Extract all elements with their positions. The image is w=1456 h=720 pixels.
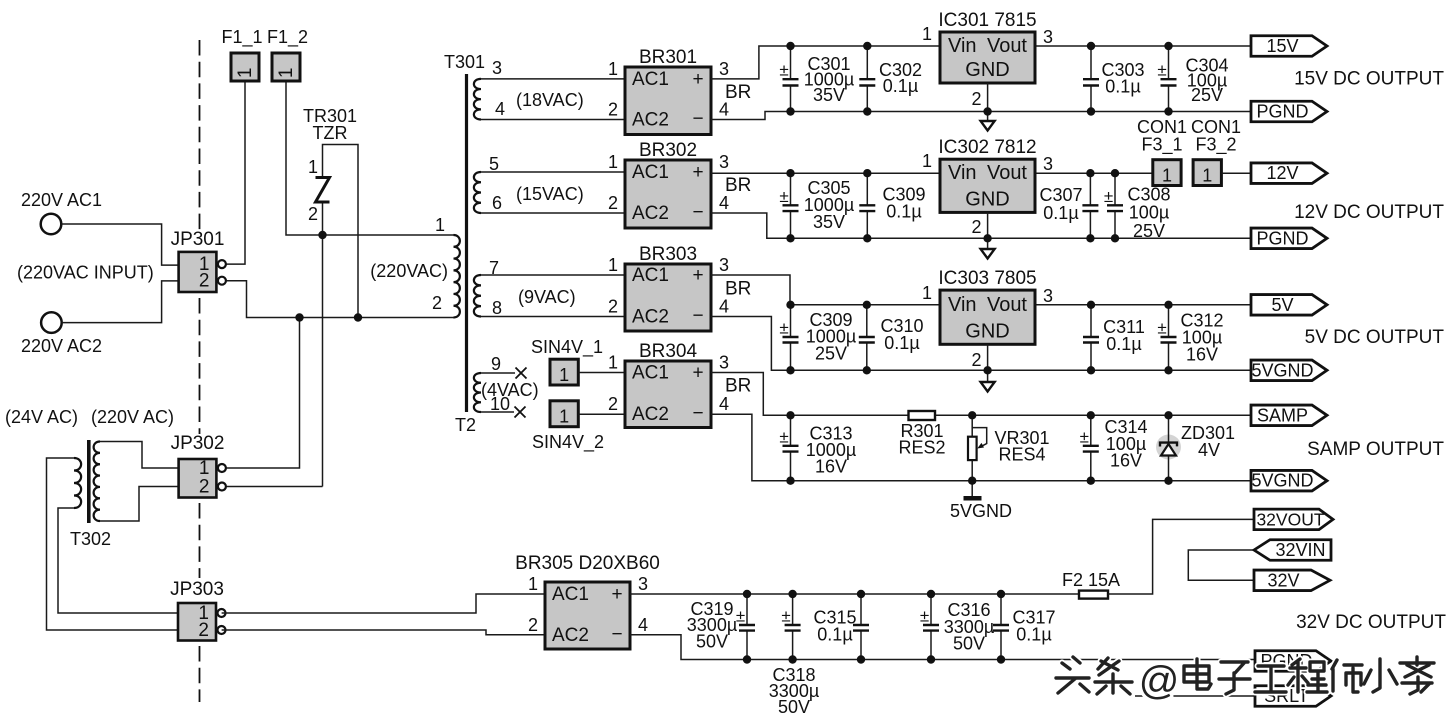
svg-text:BR303: BR303 [639, 244, 697, 265]
junction 15V rail x=867.3 [863, 42, 871, 50]
fuse SIN4V_2 [532, 401, 604, 453]
junction 5VGND rail x=1168.5 [1164, 366, 1172, 374]
wire TR301 pin2 down to JP302 pin2 [322, 203, 324, 487]
connector JP303 [170, 579, 225, 641]
svg-text:1: 1 [922, 283, 932, 303]
svg-text:6: 6 [492, 193, 502, 213]
svg-text:2: 2 [971, 89, 981, 109]
svg-text:±: ± [1157, 61, 1166, 80]
svg-text:T302: T302 [70, 529, 111, 549]
svg-text:2: 2 [199, 477, 210, 498]
svg-text:AC1: AC1 [632, 363, 669, 384]
capacitor C315 [853, 594, 869, 660]
junction 32V rail x=1001 [997, 590, 1005, 598]
net flag PGND row1 [1251, 101, 1327, 122]
capacitor C311 [1083, 305, 1099, 371]
capacitor C304 [1157, 46, 1176, 112]
fuse F2 [1079, 591, 1108, 599]
wire BR301 pin3 to 15V rail [711, 46, 1251, 79]
svg-text:3: 3 [719, 152, 729, 172]
svg-text:Vin: Vin [948, 35, 977, 57]
svg-text:0.1µ: 0.1µ [1106, 334, 1141, 354]
wire T301 pin10 stub [481, 411, 514, 413]
junction 12V rail x=1115 [1111, 169, 1119, 177]
svg-text:2: 2 [308, 204, 318, 224]
bridge rectifier BR305 [515, 553, 660, 649]
bridge rectifier BR301 [608, 47, 751, 135]
svg-text:−: − [692, 306, 703, 327]
svg-text:±: ± [1104, 187, 1113, 206]
junction 5VGND rail x=866.8 [863, 366, 871, 374]
net flag 5VGND row4 [1251, 470, 1327, 491]
svg-text:4V: 4V [1198, 440, 1220, 460]
junction PGND rail x=867.3 [863, 107, 871, 115]
junction PGND row5 rail x=931 [927, 655, 935, 663]
junction PGND row2 rail x=1115 [1111, 234, 1119, 242]
junction AC2 node at JP302 branch [295, 313, 303, 321]
wire T301 pin8 to BR303 AC2 [481, 316, 625, 318]
C317 value label [1012, 608, 1055, 645]
junction 32V rail x=931 [927, 590, 935, 598]
fuse F1_2 [267, 27, 308, 81]
svg-text:3: 3 [719, 255, 729, 275]
svg-text:3: 3 [1043, 286, 1053, 306]
bridge rectifier BR304 [608, 341, 751, 428]
bridge rectifier BR303 [608, 244, 751, 331]
svg-text:1: 1 [528, 574, 538, 594]
net flag PGND row2 [1251, 228, 1327, 249]
junction IC303 GND at 5VGND rail [983, 366, 991, 374]
junction 5VGND row4 rail x=972.2 [968, 477, 976, 485]
svg-text:2: 2 [608, 394, 618, 414]
wire BR304 pin3 to SAMP rail [711, 373, 1251, 416]
svg-text:SAMP: SAMP [1257, 405, 1308, 425]
svg-text:GND: GND [965, 320, 1009, 342]
svg-text:+: + [692, 265, 703, 286]
capacitor C318 [781, 594, 800, 660]
svg-text:AC2: AC2 [632, 203, 669, 224]
svg-text:5V DC OUTPUT: 5V DC OUTPUT [1305, 327, 1445, 348]
resistor R301 [909, 411, 936, 420]
svg-text:0.1µ: 0.1µ [884, 333, 919, 353]
junction PGND rail x=790.5 [786, 107, 794, 115]
voltage regulator IC302 7812 [922, 137, 1053, 212]
surge absorber TR301 (TZR) [316, 178, 330, 203]
transformer T301 core [465, 74, 468, 412]
svg-text:F3_1: F3_1 [1141, 135, 1182, 156]
C318 value label [769, 665, 819, 717]
capacitor C305 [779, 173, 798, 238]
C309 row2 value label [882, 185, 925, 222]
svg-text:32VIN: 32VIN [1275, 540, 1325, 560]
ground symbol 5VGND (bar) [964, 481, 982, 499]
C312 value label [1180, 311, 1223, 365]
net flag 32V [1254, 570, 1330, 591]
svg-text:4: 4 [719, 394, 729, 414]
svg-text:7: 7 [489, 258, 499, 278]
svg-text:5: 5 [489, 154, 499, 174]
svg-text:25V: 25V [1133, 221, 1165, 241]
svg-text:100µ: 100µ [1129, 203, 1169, 223]
wire JP303 pin2 to BR305 AC2 [222, 630, 545, 635]
svg-text:32V: 32V [1267, 570, 1299, 590]
svg-text:0.1µ: 0.1µ [886, 202, 921, 222]
svg-text:AC2: AC2 [632, 404, 669, 425]
svg-text:0.1µ: 0.1µ [1016, 625, 1051, 645]
T301 secondary winding 18VAC [474, 79, 481, 120]
svg-text:−: − [611, 624, 622, 645]
junction 5V rail x=866.8 [863, 301, 871, 309]
svg-text:(18VAC): (18VAC) [516, 90, 584, 110]
T301 secondary winding 9VAC [474, 275, 481, 317]
potentiometer VR301 [968, 415, 987, 480]
wire T301 pin9 stub [481, 372, 515, 374]
wire BR303 pin3 to 5V rail [711, 275, 1251, 305]
wire JP302 pin1 to AC2 node [225, 318, 299, 469]
zener diode ZD301 [1156, 415, 1181, 480]
svg-text:(24V AC): (24V AC) [5, 407, 78, 427]
wire BR302 pin4 to PGND rail row2 [711, 213, 1251, 238]
svg-text:+: + [692, 69, 703, 90]
svg-text:BR: BR [725, 279, 751, 300]
junction 12V rail x=867.3 [863, 169, 871, 177]
wire T301 pin6 to BR302 AC2 [481, 212, 625, 214]
svg-text:2: 2 [199, 271, 210, 292]
svg-text:2: 2 [971, 217, 981, 237]
wire BR301 pin4 to PGND rail [711, 112, 1251, 120]
svg-text:1: 1 [608, 353, 618, 373]
capacitor C314 [1080, 415, 1099, 480]
svg-text:±: ± [779, 427, 788, 446]
svg-text:1: 1 [559, 407, 569, 427]
C313 value label [806, 424, 856, 477]
capacitor C308 [1104, 173, 1123, 238]
junction PGND row5 rail x=792.6 [788, 655, 796, 663]
junction 12V rail x=790.5 [786, 169, 794, 177]
connector JP301 [171, 229, 226, 292]
svg-text:(9VAC): (9VAC) [518, 287, 576, 307]
svg-text:(220VAC): (220VAC) [370, 261, 448, 281]
ground symbol IC303 [981, 382, 995, 392]
svg-text:±: ± [736, 607, 745, 626]
svg-text:32VOUT: 32VOUT [1256, 509, 1324, 529]
svg-text:JP303: JP303 [170, 579, 224, 600]
C304 value label [1185, 56, 1228, 106]
svg-text:3: 3 [1043, 154, 1053, 174]
junction PGND rail x=1168.5 [1164, 107, 1172, 115]
svg-text:±: ± [779, 187, 788, 206]
svg-text:JP302: JP302 [171, 433, 225, 454]
svg-text:±: ± [920, 607, 929, 626]
svg-text:±: ± [781, 607, 790, 626]
svg-text:2: 2 [198, 620, 209, 641]
svg-text:3: 3 [638, 574, 648, 594]
svg-text:1: 1 [608, 59, 618, 79]
svg-text:BR302: BR302 [639, 140, 697, 161]
svg-text:GND: GND [965, 188, 1009, 210]
svg-text:JP301: JP301 [171, 229, 225, 250]
svg-text:50V: 50V [778, 697, 810, 717]
svg-text:(220V AC): (220V AC) [91, 407, 174, 427]
junction 5VGND rail x=1091 [1087, 366, 1095, 374]
svg-text:25V: 25V [1191, 85, 1223, 105]
IC302 GND pin wire [987, 212, 989, 249]
svg-text:BR: BR [725, 175, 751, 196]
svg-text:RES4: RES4 [998, 445, 1045, 465]
junction SAMP rail x=972.2 [968, 411, 976, 419]
junction IC302 GND at PGND rail [983, 234, 991, 242]
svg-text:4: 4 [719, 297, 729, 317]
junction IC301 GND at PGND rail [983, 107, 991, 115]
svg-text:AC2: AC2 [632, 307, 669, 328]
svg-text:12V DC OUTPUT: 12V DC OUTPUT [1294, 202, 1444, 223]
junction SAMP rail x=790.5 [786, 411, 794, 419]
svg-text:3: 3 [719, 353, 729, 373]
C308 value label [1127, 185, 1170, 242]
svg-text:±: ± [1157, 319, 1166, 338]
svg-text:AC1: AC1 [632, 69, 669, 90]
svg-text:SIN4V_2: SIN4V_2 [532, 432, 604, 453]
svg-text:T2: T2 [455, 415, 476, 435]
svg-text:C307: C307 [1039, 185, 1082, 205]
svg-text:−: − [692, 403, 703, 424]
svg-text:1: 1 [435, 215, 445, 235]
svg-text:3: 3 [492, 58, 502, 78]
C311 value label [1103, 317, 1145, 354]
svg-text:PGND: PGND [1256, 228, 1308, 248]
capacitor C313 [779, 415, 798, 480]
svg-text:F1_1: F1_1 [221, 27, 262, 48]
junction 15V rail x=1168.5 [1164, 42, 1172, 50]
wire T301 pin3 to BR301 AC1 [481, 78, 625, 80]
net flag 32VIN [1254, 540, 1331, 561]
svg-text:16V: 16V [1186, 345, 1218, 365]
svg-text:0.1µ: 0.1µ [1105, 77, 1140, 97]
svg-text:1: 1 [308, 157, 318, 177]
junction AC2 node at TR301 [354, 313, 362, 321]
svg-text:−: − [692, 202, 703, 223]
svg-text:SAMP OUTPUT: SAMP OUTPUT [1307, 439, 1444, 460]
svg-text:BR: BR [725, 375, 751, 396]
junction 32V rail x=747 [743, 590, 751, 598]
capacitor C309 (1000µ) [779, 305, 798, 371]
wire TR301 pin1 loop to AC2 node [323, 145, 359, 318]
svg-text:1: 1 [1162, 166, 1172, 186]
capacitor C312 [1157, 305, 1176, 371]
junction 32V rail x=792.6 [788, 590, 796, 598]
junction PGND row2 rail x=790.5 [786, 234, 794, 242]
svg-text:±: ± [779, 319, 788, 338]
svg-text:2: 2 [432, 293, 442, 313]
fuse F3_1 [1141, 135, 1182, 186]
wire JP301 pin1 to F1_1 [225, 81, 245, 264]
bridge rectifier BR302 [608, 140, 751, 228]
svg-text:2: 2 [608, 193, 618, 213]
capacitor C317 [993, 594, 1009, 660]
wire SRLT stub [1135, 695, 1255, 697]
wire F3_2 to 12V flag [1221, 172, 1251, 174]
svg-text:3: 3 [719, 59, 729, 79]
terminal 220V AC2 [41, 312, 62, 333]
capacitor C319 [736, 594, 755, 660]
net flag SRLT [1255, 686, 1331, 707]
net flag 32VOUT [1254, 509, 1333, 530]
svg-text:12V: 12V [1266, 163, 1298, 183]
capacitor C316 [920, 594, 939, 660]
junction SAMP rail x=1168.5 [1164, 411, 1172, 419]
junction PGND row2 rail x=1090.4 [1086, 234, 1094, 242]
junction 32V rail x=861 [857, 590, 865, 598]
svg-text:IC301 7815: IC301 7815 [938, 10, 1036, 31]
svg-text:C308: C308 [1127, 185, 1170, 205]
svg-text:GND: GND [965, 59, 1009, 81]
svg-text:@: @ [1139, 659, 1180, 703]
svg-text:+: + [611, 584, 622, 605]
svg-text:F2 15A: F2 15A [1062, 570, 1120, 590]
junction 5VGND row4 rail x=1168.5 [1164, 477, 1172, 485]
ground symbol IC302 [981, 249, 995, 259]
net flag 15V [1251, 36, 1327, 57]
no-connect cross pin 9 [516, 368, 527, 379]
IC301 GND pin wire [987, 83, 989, 121]
svg-text:1: 1 [235, 68, 256, 79]
capacitor C309 (0.1µ) [859, 173, 875, 238]
wire T302 secondary bottom to JP302 pin2 [100, 487, 179, 522]
voltage regulator IC303 7805 [922, 268, 1053, 344]
C316 value label [944, 600, 994, 654]
svg-text:2: 2 [608, 100, 618, 120]
junction 5VGND rail x=790.5 [786, 366, 794, 374]
svg-text:AC1: AC1 [552, 584, 589, 605]
junction 12V rail x=1090.4 [1086, 169, 1094, 177]
capacitor C310 [859, 305, 875, 371]
wire JP302 pin2 stub [225, 486, 322, 488]
svg-text:F1_2: F1_2 [267, 27, 308, 48]
wire AC2 to JP301 pin2 [62, 281, 179, 323]
T301 secondary winding 15VAC [474, 172, 481, 213]
wire F2 to 32VOUT flag [1108, 519, 1254, 594]
wire BR305 pin4 to PGND rail row5 [630, 635, 1255, 660]
watermark 头条 @电子工程师小李 [1056, 657, 1434, 703]
junction 5V rail x=790.5 [786, 301, 794, 309]
svg-text:32V DC OUTPUT: 32V DC OUTPUT [1296, 612, 1446, 633]
svg-text:AC2: AC2 [632, 110, 669, 131]
wire T302 secondary top to JP302 pin1 [100, 442, 179, 469]
net flag PGND row5 [1255, 651, 1331, 672]
svg-text:50V: 50V [696, 632, 728, 652]
svg-text:−: − [692, 109, 703, 130]
T301 primary winding (220VAC) [454, 235, 460, 317]
junction PGND row5 rail x=1001 [997, 655, 1005, 663]
net flag 5V [1251, 295, 1327, 316]
transformer T302 core [87, 440, 91, 523]
svg-text:220V AC1: 220V AC1 [21, 190, 102, 210]
svg-text:BR301: BR301 [639, 47, 697, 68]
capacitor C307 [1082, 173, 1098, 238]
T302 primary winding (24V AC) [74, 458, 81, 508]
svg-text:220V AC2: 220V AC2 [21, 336, 102, 356]
svg-text:5VGND: 5VGND [1251, 471, 1313, 491]
C310 value label [880, 316, 923, 353]
svg-text:(15VAC): (15VAC) [516, 184, 584, 204]
connector JP302 [171, 433, 226, 498]
svg-text:9: 9 [491, 354, 501, 374]
C301 value label [804, 54, 854, 105]
capacitor C301 [779, 46, 798, 112]
wire T301 pin7 to BR303 AC1 [481, 274, 625, 276]
wire 32VIN to 32V link [1188, 550, 1254, 580]
svg-text:1: 1 [559, 365, 569, 385]
ground symbol IC301 [981, 121, 995, 131]
svg-text:BR305 D20XB60: BR305 D20XB60 [515, 553, 660, 574]
junction SAMP rail x=1090.8 [1087, 411, 1095, 419]
svg-text:BR304: BR304 [639, 341, 698, 362]
svg-text:5VGND: 5VGND [950, 501, 1012, 521]
svg-text:1: 1 [922, 151, 932, 171]
svg-text:±: ± [1080, 427, 1089, 446]
svg-text:1: 1 [1202, 166, 1212, 186]
svg-text:RES2: RES2 [898, 438, 945, 458]
svg-text:2: 2 [608, 297, 618, 317]
svg-text:(4VAC): (4VAC) [481, 380, 539, 400]
wire AC1 to JP301 pin1 [61, 224, 178, 265]
wire BR304 pin4 to 5VGND rail row4 [711, 414, 1251, 481]
svg-text:1: 1 [922, 24, 932, 44]
svg-text:+: + [692, 363, 703, 384]
voltage regulator IC301 7815 [922, 10, 1053, 83]
junction PGND row5 rail x=747 [743, 655, 751, 663]
svg-text:2: 2 [971, 350, 981, 370]
svg-text:0.1µ: 0.1µ [817, 625, 852, 645]
svg-text:(220VAC INPUT): (220VAC INPUT) [17, 263, 154, 283]
net flag 12V [1251, 163, 1327, 184]
fuse F1_1 [221, 27, 262, 81]
svg-text:BR: BR [725, 82, 751, 103]
IC303 GND pin wire [987, 344, 989, 382]
svg-text:16V: 16V [1110, 451, 1142, 471]
terminal 220V AC1 [41, 214, 62, 235]
svg-text:PGND: PGND [1256, 102, 1308, 122]
net flag 5VGND row3 [1251, 360, 1327, 381]
wire BR305 pin3 to 32V rail [630, 593, 1079, 595]
svg-text:Vout: Vout [987, 162, 1027, 184]
svg-text:AC2: AC2 [552, 625, 589, 646]
svg-text:+: + [692, 162, 703, 183]
wire T302 primary bottom to JP303 pin1 [58, 508, 178, 613]
C315 value label [813, 608, 856, 645]
svg-text:3: 3 [1043, 27, 1053, 47]
wire BR303 pin4 to 5VGND rail [711, 317, 1251, 371]
svg-text:IC302 7812: IC302 7812 [938, 137, 1036, 158]
capacitor C303 [1083, 46, 1099, 112]
svg-text:15V DC OUTPUT: 15V DC OUTPUT [1294, 69, 1444, 90]
svg-text:50V: 50V [953, 634, 985, 654]
T301 secondary winding 4VAC [474, 373, 481, 412]
wire BR302 pin3 12V rail [711, 172, 1153, 174]
C307 value label [1039, 185, 1082, 223]
junction 5VGND row4 rail x=1090.8 [1087, 477, 1095, 485]
junction 5VGND row4 rail x=790.5 [786, 477, 794, 485]
C305 value label [804, 178, 854, 232]
wire JP301 pin2 to T301 primary pin2 (AC2 node) [225, 281, 454, 318]
svg-text:0.1µ: 0.1µ [883, 76, 918, 96]
net flag SAMP [1251, 405, 1327, 426]
svg-text:8: 8 [492, 298, 502, 318]
svg-text:16V: 16V [815, 457, 847, 477]
svg-text:35V: 35V [813, 212, 845, 232]
svg-text:2: 2 [528, 615, 538, 635]
capacitor C302 [859, 46, 875, 112]
